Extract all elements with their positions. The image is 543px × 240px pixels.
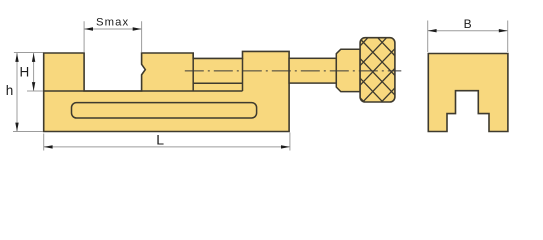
L left arrowhead	[44, 145, 53, 148]
svg-text:Smax: Smax	[96, 17, 129, 29]
H top arrowhead	[32, 53, 35, 62]
Smax left arrowhead	[84, 27, 93, 30]
L extension lines	[44, 133, 290, 151]
Smax right arrowhead	[133, 27, 142, 30]
rear bracket left edge	[242, 58, 244, 91]
B dimension line	[428, 30, 508, 32]
B right arrowhead	[499, 29, 508, 32]
L right arrowhead	[281, 145, 290, 148]
Smax dimension line	[84, 28, 142, 30]
L dimension line	[44, 146, 290, 148]
svg-text:h: h	[6, 83, 14, 98]
slot in base (rounded rectangle)	[72, 103, 257, 118]
svg-text:H: H	[19, 64, 29, 79]
knurled knob body	[360, 38, 395, 102]
svg-text:B: B	[464, 17, 472, 31]
screw bottom edge (between jaw and bracket)	[193, 82, 242, 84]
B extension lines	[428, 21, 508, 53]
H/h shared top extension line	[14, 52, 43, 54]
base top edge line	[44, 90, 243, 92]
svg-text:L: L	[156, 131, 164, 147]
H bottom arrowhead	[32, 82, 35, 91]
h top arrowhead	[15, 53, 18, 62]
end view body (castle shaped cross-section)	[428, 54, 508, 132]
knob knurling cross-hatch	[288, 38, 458, 102]
movable jaw right edge	[192, 53, 194, 91]
collar (chamfered boss before knob)	[336, 49, 360, 91]
lead screw shaft (bracket to collar)	[289, 58, 336, 83]
B left arrowhead	[428, 29, 437, 32]
H dimension line	[33, 53, 35, 91]
Smax dimension: extension lines	[84, 21, 142, 52]
h bottom arrowhead	[15, 123, 18, 132]
screw centerline (dash-dot)	[185, 70, 401, 72]
vise body silhouette (base + fixed jaw + movable jaw + screw boss + rear bracket)	[44, 51, 289, 131]
h dimension line	[16, 53, 18, 132]
H bottom extension line	[27, 90, 43, 92]
h bottom extension line	[13, 131, 43, 133]
